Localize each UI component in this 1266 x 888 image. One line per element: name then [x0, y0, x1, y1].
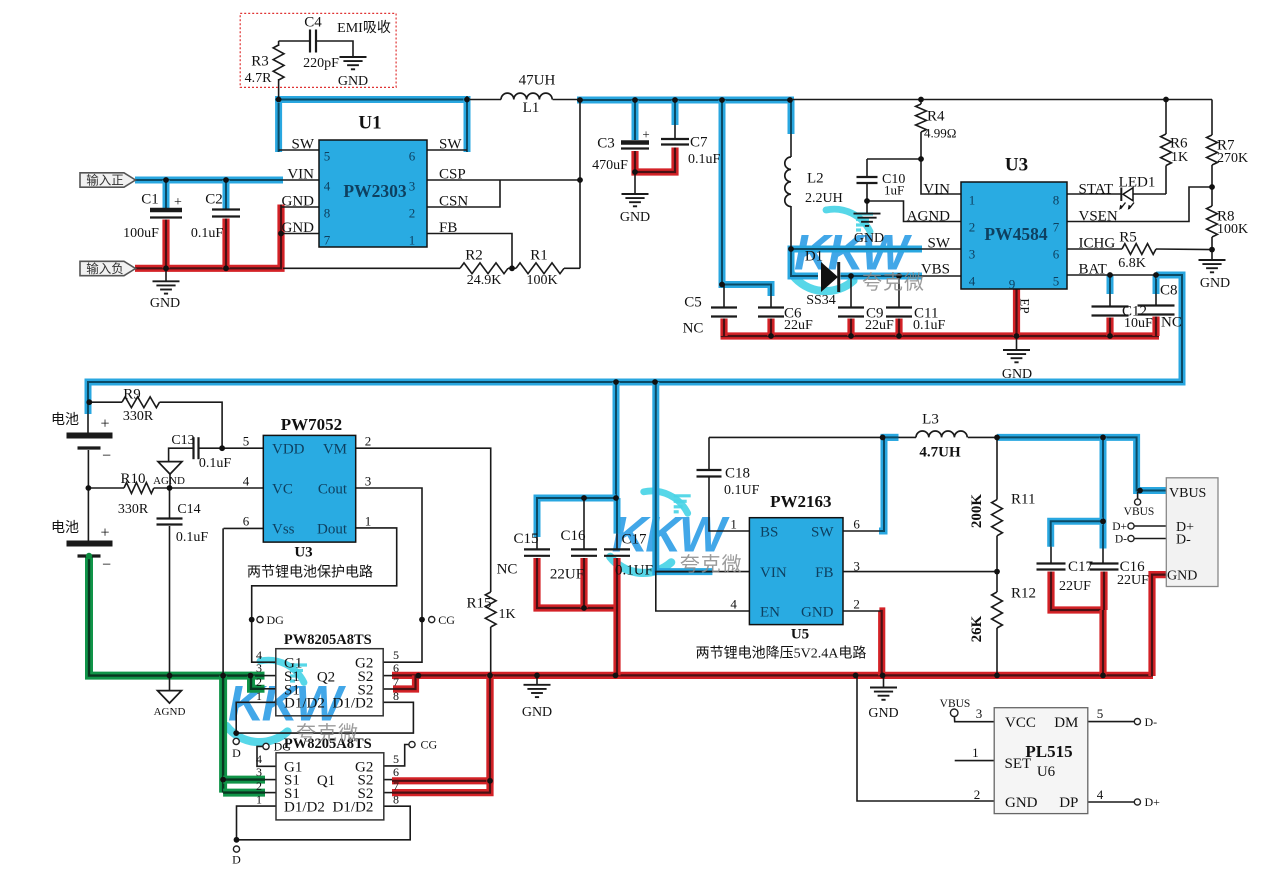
svg-text:4: 4 [324, 179, 331, 194]
svg-text:R10: R10 [120, 471, 145, 487]
svg-text:C3: C3 [597, 135, 615, 151]
svg-text:7: 7 [393, 779, 399, 793]
svg-text:PW4584: PW4584 [984, 224, 1047, 244]
svg-text:AGND: AGND [154, 706, 186, 718]
svg-text:1: 1 [256, 689, 262, 703]
svg-text:BS: BS [760, 524, 778, 540]
svg-text:U3: U3 [1005, 155, 1028, 176]
svg-text:2: 2 [256, 675, 262, 689]
svg-text:VBUS: VBUS [940, 698, 971, 710]
svg-text:8: 8 [393, 793, 399, 807]
svg-text:270K: 270K [1217, 151, 1248, 166]
svg-text:VIN: VIN [760, 565, 787, 581]
svg-text:GND: GND [338, 74, 368, 89]
svg-text:4: 4 [256, 648, 262, 662]
svg-text:5: 5 [393, 752, 399, 766]
svg-text:EN: EN [760, 604, 780, 620]
svg-text:0.1uF: 0.1uF [913, 318, 946, 333]
svg-text:R2: R2 [465, 247, 483, 263]
svg-text:C5: C5 [684, 294, 702, 310]
svg-text:GND: GND [282, 193, 315, 209]
svg-text:47UH: 47UH [519, 72, 556, 88]
svg-text:3: 3 [976, 706, 983, 721]
svg-text:C17: C17 [1068, 559, 1094, 575]
svg-text:10uF: 10uF [1124, 316, 1153, 331]
svg-text:GND: GND [620, 210, 650, 225]
svg-text:220pF: 220pF [303, 56, 339, 71]
svg-text:Cout: Cout [318, 481, 348, 497]
svg-text:100K: 100K [1217, 222, 1248, 237]
svg-text:VIN: VIN [287, 166, 314, 182]
svg-text:3: 3 [365, 474, 372, 489]
svg-text:DP: DP [1059, 795, 1078, 811]
svg-text:R12: R12 [1011, 585, 1036, 601]
svg-text:GND: GND [854, 231, 884, 246]
svg-text:+: + [174, 195, 182, 210]
svg-text:100K: 100K [526, 273, 557, 288]
svg-text:−: − [102, 448, 111, 465]
svg-text:3: 3 [409, 179, 416, 194]
svg-text:D1/D2: D1/D2 [333, 799, 374, 815]
svg-text:NC: NC [1161, 314, 1182, 330]
svg-text:0.1UF: 0.1UF [724, 483, 760, 498]
svg-text:R5: R5 [1119, 229, 1137, 245]
svg-text:C2: C2 [205, 191, 223, 207]
svg-text:GND: GND [522, 705, 552, 720]
svg-text:NC: NC [683, 320, 704, 336]
svg-text:8: 8 [1053, 193, 1060, 208]
svg-text:FB: FB [439, 220, 457, 236]
svg-text:FB: FB [815, 565, 833, 581]
svg-text:VSEN: VSEN [1079, 208, 1118, 224]
svg-text:U5: U5 [791, 627, 809, 643]
svg-text:夸克微: 夸克微 [296, 722, 359, 745]
svg-text:NC: NC [497, 561, 518, 577]
svg-text:L1: L1 [523, 100, 540, 116]
svg-text:5: 5 [393, 648, 399, 662]
svg-text:−: − [102, 557, 111, 574]
svg-text:D+: D+ [1112, 521, 1127, 533]
svg-text:SW: SW [439, 136, 462, 152]
svg-text:GND: GND [150, 296, 180, 311]
svg-text:7: 7 [1053, 220, 1060, 235]
svg-text:7: 7 [324, 233, 331, 248]
svg-text:7: 7 [393, 675, 399, 689]
svg-text:PW8205A8TS: PW8205A8TS [284, 632, 372, 648]
svg-text:2: 2 [365, 434, 372, 449]
svg-text:8: 8 [393, 689, 399, 703]
svg-text:Q1: Q1 [317, 773, 335, 789]
svg-text:VBS: VBS [921, 261, 950, 277]
svg-text:EP: EP [1017, 298, 1032, 313]
svg-text:5: 5 [243, 434, 250, 449]
svg-text:1: 1 [972, 745, 979, 760]
svg-text:3: 3 [853, 559, 860, 574]
svg-text:0.1uF: 0.1uF [688, 152, 721, 167]
svg-text:R9: R9 [123, 386, 141, 402]
svg-text:VBUS: VBUS [1124, 506, 1155, 518]
svg-text:9: 9 [1009, 277, 1016, 292]
svg-text:3: 3 [256, 765, 262, 779]
svg-text:5: 5 [1097, 706, 1104, 721]
svg-text:R1: R1 [530, 247, 548, 263]
svg-text:夸克微: 夸克微 [862, 271, 925, 294]
svg-text:22UF: 22UF [550, 566, 584, 582]
svg-text:AGND: AGND [907, 208, 950, 224]
svg-text:0.1UF: 0.1UF [615, 563, 653, 579]
svg-text:200K: 200K [969, 494, 985, 529]
svg-text:GND: GND [1005, 795, 1038, 811]
svg-text:6.8K: 6.8K [1118, 256, 1146, 271]
svg-text:C7: C7 [690, 134, 708, 150]
svg-text:1K: 1K [498, 607, 515, 622]
svg-text:R6: R6 [1170, 135, 1188, 151]
svg-text:26K: 26K [969, 615, 985, 642]
svg-text:4.7R: 4.7R [245, 71, 273, 86]
svg-text:2: 2 [256, 779, 262, 793]
svg-text:C13: C13 [171, 433, 194, 448]
svg-text:22uF: 22uF [865, 318, 894, 333]
svg-text:PW2303: PW2303 [343, 181, 406, 201]
svg-text:输入正: 输入正 [86, 172, 124, 187]
svg-text:6: 6 [409, 149, 416, 164]
svg-text:4: 4 [243, 474, 250, 489]
svg-text:D1/D2: D1/D2 [284, 696, 325, 712]
svg-text:夸克微: 夸克微 [680, 553, 743, 576]
svg-text:1: 1 [730, 517, 737, 532]
svg-text:R11: R11 [1011, 491, 1035, 507]
svg-text:1: 1 [409, 233, 416, 248]
svg-text:6: 6 [243, 514, 250, 529]
svg-text:D1: D1 [805, 248, 823, 264]
svg-text:EMI吸收: EMI吸收 [337, 20, 391, 36]
svg-text:电池: 电池 [51, 520, 79, 536]
svg-text:CG: CG [438, 613, 455, 627]
svg-text:1K: 1K [1171, 150, 1188, 165]
svg-text:R15: R15 [466, 595, 491, 611]
svg-text:VBUS: VBUS [1169, 486, 1206, 501]
svg-text:GND: GND [1200, 276, 1230, 291]
svg-text:D: D [232, 746, 241, 760]
svg-text:CSN: CSN [439, 193, 468, 209]
svg-text:D+: D+ [1145, 795, 1161, 809]
svg-text:两节锂电池保护电路: 两节锂电池保护电路 [247, 564, 373, 580]
svg-text:22UF: 22UF [1059, 579, 1091, 594]
svg-text:D1/D2: D1/D2 [284, 799, 325, 815]
svg-text:输入负: 输入负 [86, 261, 124, 276]
svg-text:GND: GND [1002, 367, 1032, 382]
svg-text:4: 4 [969, 274, 976, 289]
svg-text:PL515: PL515 [1025, 742, 1072, 761]
svg-text:PW7052: PW7052 [281, 415, 342, 434]
svg-text:C1: C1 [141, 191, 159, 207]
svg-text:D1/D2: D1/D2 [333, 696, 374, 712]
svg-text:5: 5 [324, 149, 331, 164]
svg-text:C14: C14 [177, 502, 200, 517]
svg-text:L2: L2 [807, 170, 824, 186]
svg-text:330R: 330R [118, 502, 149, 517]
svg-text:AGND: AGND [153, 475, 185, 487]
svg-text:24.9K: 24.9K [467, 273, 502, 288]
svg-text:6: 6 [393, 765, 399, 779]
svg-text:U1: U1 [358, 113, 381, 134]
svg-text:4: 4 [730, 597, 737, 612]
svg-text:1: 1 [256, 793, 262, 807]
svg-text:SW: SW [928, 235, 951, 251]
svg-text:+: + [642, 127, 649, 142]
svg-text:GND: GND [868, 706, 898, 721]
svg-text:U3: U3 [294, 544, 312, 560]
svg-text:R4: R4 [927, 108, 945, 124]
svg-text:6: 6 [393, 661, 399, 675]
svg-text:Dout: Dout [317, 522, 348, 538]
svg-text:C8: C8 [1160, 282, 1178, 298]
svg-text:22uF: 22uF [784, 318, 813, 333]
svg-text:U6: U6 [1037, 764, 1056, 780]
svg-text:D-: D- [1115, 534, 1127, 546]
svg-text:1uF: 1uF [884, 183, 904, 198]
svg-text:D-: D- [1176, 532, 1191, 547]
svg-text:VIN: VIN [923, 181, 950, 197]
svg-text:C15: C15 [513, 531, 538, 547]
svg-text:DG: DG [267, 613, 285, 627]
svg-text:8: 8 [324, 206, 331, 221]
svg-text:VCC: VCC [1005, 715, 1036, 731]
svg-text:1: 1 [969, 193, 976, 208]
svg-text:100uF: 100uF [123, 226, 159, 241]
svg-text:330R: 330R [123, 409, 154, 424]
svg-text:5: 5 [1053, 274, 1060, 289]
svg-text:+: + [100, 416, 109, 433]
svg-text:GND: GND [801, 604, 834, 620]
svg-text:C4: C4 [304, 14, 322, 30]
svg-text:C16: C16 [560, 528, 586, 544]
svg-text:CG: CG [421, 738, 438, 752]
svg-text:C18: C18 [725, 465, 750, 481]
svg-text:0.1uF: 0.1uF [191, 226, 224, 241]
svg-text:6: 6 [853, 517, 860, 532]
svg-text:Vss: Vss [272, 522, 295, 538]
svg-text:2: 2 [853, 597, 860, 612]
svg-text:2: 2 [409, 206, 416, 221]
svg-text:VM: VM [323, 441, 347, 457]
svg-text:R3: R3 [251, 53, 269, 69]
svg-text:SW: SW [811, 524, 834, 540]
svg-text:+: + [100, 525, 109, 542]
svg-text:1: 1 [365, 514, 372, 529]
svg-text:2.2UH: 2.2UH [805, 191, 843, 206]
svg-text:3: 3 [256, 661, 262, 675]
svg-text:22UF: 22UF [1117, 573, 1149, 588]
svg-text:2: 2 [974, 787, 981, 802]
svg-text:GND: GND [1167, 569, 1197, 584]
svg-text:4: 4 [1097, 787, 1104, 802]
svg-text:DM: DM [1054, 715, 1078, 731]
svg-text:VC: VC [272, 481, 293, 497]
svg-text:4.7UH: 4.7UH [919, 444, 961, 460]
svg-text:0.1uF: 0.1uF [199, 456, 232, 471]
svg-text:C17: C17 [621, 532, 647, 548]
svg-text:4.99Ω: 4.99Ω [924, 126, 956, 141]
svg-text:Q2: Q2 [317, 669, 335, 685]
svg-text:PW2163: PW2163 [770, 492, 831, 511]
svg-text:VDD: VDD [272, 441, 305, 457]
svg-text:4: 4 [256, 752, 262, 766]
svg-text:0.1uF: 0.1uF [176, 530, 209, 545]
svg-text:3: 3 [969, 247, 976, 262]
svg-text:D-: D- [1145, 715, 1158, 729]
svg-text:D: D [232, 853, 241, 867]
svg-text:LED1: LED1 [1119, 174, 1156, 190]
svg-text:电池: 电池 [51, 412, 79, 428]
svg-text:两节锂电池降压5V2.4A电路: 两节锂电池降压5V2.4A电路 [696, 646, 867, 662]
svg-text:BAT: BAT [1079, 261, 1107, 277]
svg-text:GND: GND [282, 220, 315, 236]
svg-text:CSP: CSP [439, 166, 466, 182]
svg-text:6: 6 [1053, 247, 1060, 262]
svg-text:470uF: 470uF [592, 158, 628, 173]
svg-text:2: 2 [969, 220, 976, 235]
svg-text:SW: SW [292, 136, 315, 152]
svg-text:STAT: STAT [1079, 181, 1114, 197]
svg-text:ICHG: ICHG [1079, 235, 1116, 251]
svg-text:SS34: SS34 [806, 293, 836, 308]
svg-text:L3: L3 [922, 411, 939, 427]
